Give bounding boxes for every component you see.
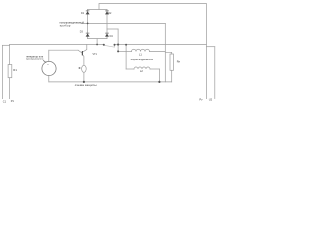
svg-text:прибор: прибор xyxy=(60,23,71,27)
svg-text:R1: R1 xyxy=(13,68,17,72)
svg-text:C1: C1 xyxy=(3,99,7,103)
svg-text:U2: U2 xyxy=(209,98,213,102)
svg-text:преобразователь: преобразователь xyxy=(26,59,44,61)
svg-text:катушка индуктивности: катушка индуктивности xyxy=(131,59,153,61)
svg-text:P1: P1 xyxy=(11,99,15,103)
svg-text:Rн: Rн xyxy=(177,59,181,63)
svg-text:VT1: VT1 xyxy=(93,53,98,56)
svg-text:схема защиты: схема защиты xyxy=(75,83,97,87)
svg-text:~: ~ xyxy=(47,63,49,67)
